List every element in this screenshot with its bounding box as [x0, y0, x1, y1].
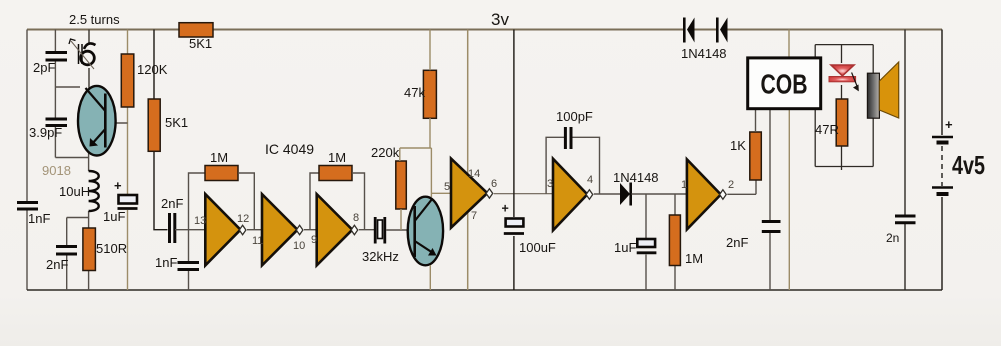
resistor 5K1 vertical: [148, 99, 160, 151]
wire out2 to in3: [304, 173, 319, 230]
svg-text:1: 1: [681, 179, 687, 191]
wire out4: [494, 193, 553, 195]
capacitor 2n: [904, 30, 906, 291]
capacitor 100pF feedback: [546, 137, 599, 193]
svg-text:1nF: 1nF: [155, 255, 177, 270]
svg-text:1N4148: 1N4148: [681, 46, 727, 61]
wire 220k stubs: [400, 148, 401, 230]
svg-text:3: 3: [547, 178, 553, 190]
wire out3 to crystal: [359, 229, 375, 231]
wire 1M2 feedback: [352, 173, 365, 230]
wire 47k column / collector node: [400, 30, 451, 198]
svg-text:2: 2: [728, 179, 734, 191]
wire IC power column: [467, 30, 469, 291]
wire 2pF/3.9pF column: [55, 30, 88, 158]
wire crystal to base: [386, 229, 413, 231]
svg-text:COB: COB: [761, 69, 808, 100]
wire 1K top to COB: [755, 109, 757, 132]
resistor 5K1 horizontal top: [179, 23, 213, 37]
svg-text:9: 9: [311, 234, 317, 246]
svg-text:2pF: 2pF: [33, 60, 55, 75]
svg-text:IC 4049: IC 4049: [265, 141, 314, 157]
capacitor 2pF: [46, 53, 68, 61]
svg-text:120K: 120K: [137, 62, 168, 77]
capacitor 100uF: [504, 219, 524, 234]
svg-text:3.9pF: 3.9pF: [29, 125, 62, 140]
wire LED/speaker box: [815, 45, 873, 170]
resistor 1M second: [319, 166, 352, 181]
diode D1 1N4148 top: [684, 18, 694, 43]
capacitor 1nF mid: [178, 263, 200, 270]
svg-text:1nF: 1nF: [28, 211, 50, 226]
capacitor 2nF left: [56, 247, 77, 255]
svg-text:7: 7: [471, 210, 477, 222]
svg-text:100uF: 100uF: [519, 240, 556, 255]
wire out diode: [632, 193, 688, 195]
resistor 1M third: [674, 194, 676, 290]
svg-text:13: 13: [194, 215, 206, 227]
capacitor 2nF coupling: [170, 213, 175, 243]
svg-text:100pF: 100pF: [556, 109, 593, 124]
COB module: [788, 30, 790, 291]
svg-text:32kHz: 32kHz: [362, 249, 399, 264]
svg-text:2.5 turns: 2.5 turns: [69, 12, 120, 27]
resistor 120K: [121, 54, 134, 107]
svg-text:5: 5: [444, 181, 450, 193]
wire Q2 emitter down: [429, 265, 431, 290]
LED red: [829, 65, 859, 91]
diode D3 1N4148 mid: [620, 183, 631, 206]
diode D2 1N4148 top: [717, 18, 727, 43]
op-amp U1B inverter: [262, 194, 303, 265]
resistor 47R: [836, 99, 848, 146]
svg-text:12: 12: [237, 213, 249, 225]
trimmer coil 2.5 turns: [69, 39, 96, 69]
svg-text:6: 6: [491, 178, 497, 190]
wire bottom rail: [27, 289, 942, 291]
svg-text:8: 8: [353, 212, 359, 224]
op-amp U2 inverter pin3-4: [553, 159, 593, 231]
wire coil column: [88, 30, 90, 89]
svg-text:47R: 47R: [815, 122, 839, 137]
resistor 510R: [83, 228, 96, 271]
resistor 47k: [423, 70, 436, 118]
op-amp U1D inverter pin5-6: [451, 159, 493, 228]
resistor 1M first: [205, 166, 238, 181]
resistor 1K: [750, 132, 762, 180]
svg-text:510R: 510R: [96, 241, 127, 256]
wire emitter column: [88, 150, 90, 290]
svg-text:3v: 3v: [491, 10, 509, 29]
wire 1M1 feedback: [238, 173, 254, 230]
wire out6 to 1K: [727, 180, 756, 194]
wire top 3v rail: [27, 29, 942, 31]
wire into inverter1: [175, 173, 205, 290]
svg-text:4: 4: [587, 174, 593, 186]
svg-text:47k: 47k: [404, 85, 425, 100]
svg-text:1N4148: 1N4148: [613, 170, 659, 185]
transistor Q2: [408, 197, 443, 266]
wire 3v drop / 100uF column: [513, 30, 515, 291]
resistor 220k: [396, 161, 407, 209]
svg-text:1M: 1M: [685, 251, 703, 266]
capacitor 1uF electrolytic: [118, 195, 138, 209]
svg-text:11: 11: [252, 235, 263, 247]
svg-text:9018: 9018: [42, 163, 71, 178]
wire T1 base link: [107, 122, 128, 124]
wire 120K column: [127, 30, 129, 291]
op-amp U3 inverter pin1-2: [687, 159, 726, 229]
svg-text:5K1: 5K1: [165, 115, 188, 130]
op-amp U1A inverter pin13-12: [205, 194, 246, 265]
svg-text:2n: 2n: [886, 231, 899, 245]
capacitor 1nF left: [17, 203, 38, 210]
svg-text:+: +: [114, 178, 122, 193]
capacitor 1uF mid: [645, 194, 647, 290]
svg-text:2nF: 2nF: [726, 235, 748, 250]
op-amp U1C inverter pin9-8: [317, 194, 358, 265]
svg-text:2nF: 2nF: [46, 257, 68, 272]
wire right battery branch: [941, 30, 943, 291]
svg-text:1M: 1M: [210, 150, 228, 165]
svg-text:220k: 220k: [371, 145, 400, 160]
speaker LS1: [867, 62, 898, 118]
svg-text:1uF: 1uF: [614, 240, 636, 255]
svg-text:1uF: 1uF: [103, 209, 125, 224]
wire collector link to T1: [55, 86, 80, 88]
wire left rail: [26, 30, 28, 291]
capacitor 2nF right: [769, 109, 771, 290]
crystal 32kHz: [375, 217, 385, 244]
svg-text:5K1: 5K1: [189, 36, 212, 51]
svg-text:4v5: 4v5: [952, 150, 985, 180]
svg-text:14: 14: [468, 168, 480, 180]
wire out1 to in2: [247, 229, 262, 231]
wire 2nF-left branch: [67, 218, 89, 291]
inductor 10uH: [89, 171, 99, 211]
svg-text:1K: 1K: [730, 138, 746, 153]
wire out5: [594, 193, 620, 195]
svg-text:+: +: [502, 202, 509, 216]
svg-text:10uH: 10uH: [59, 184, 90, 199]
wire 5K1 column: [154, 30, 168, 230]
svg-text:10: 10: [293, 240, 305, 252]
battery 4v5: [932, 137, 953, 194]
svg-text:2nF: 2nF: [161, 196, 183, 211]
transistor Q1 9018: [78, 86, 116, 156]
capacitor 3.9pF: [46, 119, 68, 126]
svg-text:1M: 1M: [328, 150, 346, 165]
svg-text:+: +: [945, 117, 953, 132]
